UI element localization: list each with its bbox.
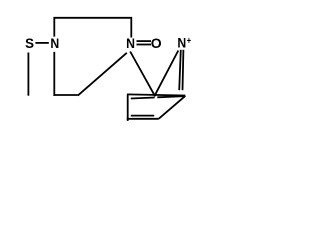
wire N1 down vertical	[53, 52, 55, 96]
wire diagonal up to N2	[78, 53, 127, 96]
wire ring diagonal BM to TR	[159, 96, 186, 119]
wire N2 down-right diagonal to V tip	[130, 52, 155, 97]
svg-text:O: O	[151, 35, 162, 51]
wire ring bottom edge	[127, 118, 159, 120]
wire S-N1 bond	[35, 42, 48, 44]
wire ring top inner double line right part	[157, 96, 185, 97]
wire ring left edge	[127, 95, 129, 121]
wire ring top edge TL to TR	[127, 94, 185, 95]
wire N2=O double bond	[137, 40, 152, 42]
wire ring N1 up, top bridge, down to N2	[54, 18, 131, 38]
svg-text:+: +	[187, 35, 191, 46]
svg-text:N: N	[126, 35, 135, 51]
wire V tip up-right to N3	[154, 51, 178, 97]
svg-text:S: S	[25, 36, 34, 51]
wire bottom short horizontal	[53, 94, 77, 96]
svg-text:N: N	[50, 35, 59, 51]
svg-text:N: N	[177, 35, 186, 51]
wire ring bottom inner double line	[131, 115, 154, 117]
wire methyl below S	[27, 53, 29, 96]
wire ring top inner double line	[131, 98, 155, 99]
wire N3 double bond down	[179, 50, 181, 90]
